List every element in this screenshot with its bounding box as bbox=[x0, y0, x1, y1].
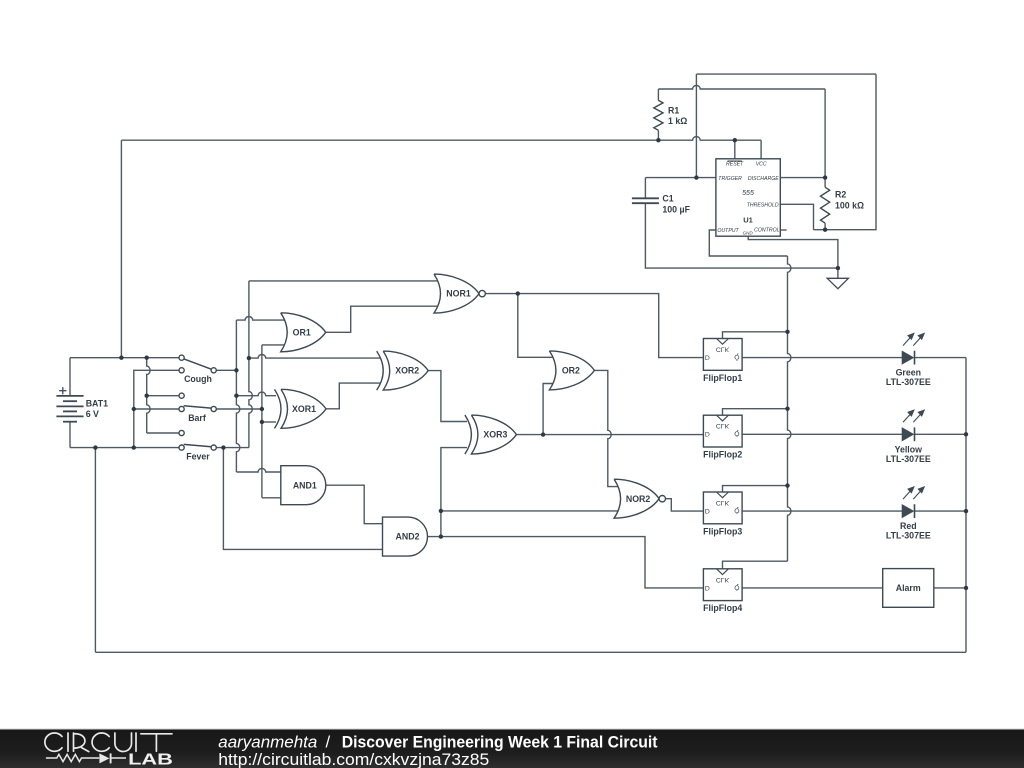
svg-text:XOR1: XOR1 bbox=[292, 404, 316, 414]
svg-text:CLK: CLK bbox=[716, 422, 730, 429]
svg-text:Green: Green bbox=[896, 368, 921, 378]
svg-text:555: 555 bbox=[742, 190, 754, 197]
svg-text:http://circuitlab.com/cxkvzjna: http://circuitlab.com/cxkvzjna73z85 bbox=[218, 750, 489, 768]
svg-text:Cough: Cough bbox=[184, 374, 212, 384]
svg-text:CONTROL: CONTROL bbox=[754, 227, 779, 233]
svg-text:AND2: AND2 bbox=[396, 532, 420, 542]
svg-text:NOR1: NOR1 bbox=[446, 289, 471, 299]
svg-text:D: D bbox=[705, 507, 710, 514]
svg-text:OUTPUT: OUTPUT bbox=[717, 228, 739, 234]
svg-text:Yellow: Yellow bbox=[895, 444, 923, 454]
svg-text:CLK: CLK bbox=[716, 346, 730, 353]
svg-text:Barf: Barf bbox=[188, 413, 206, 423]
svg-text:BAT1: BAT1 bbox=[86, 398, 108, 408]
svg-text:XOR2: XOR2 bbox=[395, 366, 419, 376]
svg-text:Q̄: Q̄ bbox=[734, 507, 739, 515]
svg-text:D: D bbox=[705, 354, 710, 361]
svg-text:OR2: OR2 bbox=[562, 366, 580, 376]
svg-text:OR1: OR1 bbox=[293, 327, 311, 337]
svg-text:U1: U1 bbox=[743, 215, 753, 224]
svg-text:100 kΩ: 100 kΩ bbox=[835, 201, 864, 211]
svg-text:Q̄: Q̄ bbox=[734, 430, 739, 438]
svg-text:AND1: AND1 bbox=[293, 480, 317, 490]
svg-text:CLK: CLK bbox=[716, 499, 730, 506]
svg-text:Red: Red bbox=[900, 521, 917, 531]
svg-text:1 kΩ: 1 kΩ bbox=[668, 116, 687, 126]
svg-text:LTL-307EE: LTL-307EE bbox=[886, 377, 931, 387]
svg-text:RESET: RESET bbox=[726, 162, 744, 168]
svg-text:GND: GND bbox=[743, 230, 754, 235]
svg-text:VCC: VCC bbox=[756, 162, 767, 168]
svg-text:FlipFlop2: FlipFlop2 bbox=[703, 450, 742, 460]
svg-text:D: D bbox=[705, 584, 710, 591]
svg-text:CLK: CLK bbox=[716, 576, 730, 583]
svg-text:100 µF: 100 µF bbox=[662, 204, 690, 214]
svg-text:FlipFlop4: FlipFlop4 bbox=[703, 603, 742, 613]
svg-text:D: D bbox=[705, 430, 710, 437]
svg-text:FlipFlop1: FlipFlop1 bbox=[703, 373, 742, 383]
svg-text:FlipFlop3: FlipFlop3 bbox=[703, 526, 742, 536]
svg-text:XOR3: XOR3 bbox=[483, 430, 507, 440]
svg-text:DISCHARGE: DISCHARGE bbox=[748, 176, 779, 182]
svg-text:Fever: Fever bbox=[186, 452, 210, 462]
svg-text:Q̄: Q̄ bbox=[734, 353, 739, 361]
svg-text:R1: R1 bbox=[668, 105, 679, 115]
svg-text:6 V: 6 V bbox=[86, 409, 99, 419]
svg-text:LTL-307EE: LTL-307EE bbox=[886, 531, 931, 541]
svg-text:NOR2: NOR2 bbox=[626, 494, 651, 504]
svg-text:C1: C1 bbox=[662, 194, 673, 204]
svg-text:LTL-307EE: LTL-307EE bbox=[886, 454, 931, 464]
svg-text:Alarm: Alarm bbox=[896, 583, 921, 593]
svg-text:LAB: LAB bbox=[128, 751, 173, 768]
svg-text:Q̄: Q̄ bbox=[734, 583, 739, 591]
svg-text:TRIGGER: TRIGGER bbox=[718, 176, 742, 182]
svg-text:THRESHOLD: THRESHOLD bbox=[747, 203, 779, 209]
svg-text:R2: R2 bbox=[835, 190, 846, 200]
